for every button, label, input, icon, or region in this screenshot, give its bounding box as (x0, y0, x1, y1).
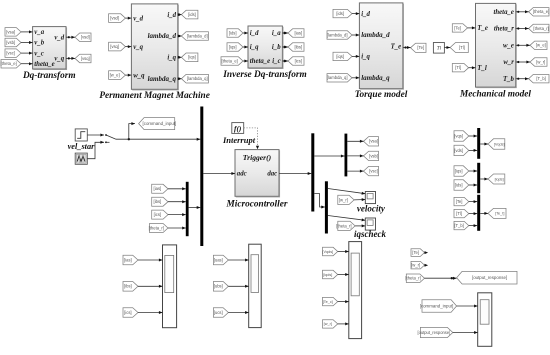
svg-text:[theta_r]: [theta_r] (405, 276, 420, 281)
svg-text:f(): f() (234, 124, 241, 133)
svg-text:T_l: T_l (477, 65, 487, 72)
svg-text:[vsc]: [vsc] (6, 51, 15, 56)
svg-text:[vsq]: [vsq] (81, 56, 90, 61)
svg-text:[ids]: [ids] (336, 11, 344, 16)
svg-text:[w_r]: [w_r] (536, 59, 545, 64)
svg-text:Dq-transform: Dq-transform (22, 71, 76, 81)
svg-text:[T_b]: [T_b] (454, 223, 464, 228)
svg-text:[theta_e]: [theta_e] (222, 58, 238, 63)
svg-text:theta_r: theta_r (494, 26, 514, 33)
svg-text:v_a: v_a (34, 29, 44, 36)
svg-text:w_q: w_q (133, 72, 145, 79)
svg-text:v_d: v_d (54, 34, 64, 41)
svg-text:[Te]: [Te] (454, 25, 461, 30)
svg-text:i_d: i_d (361, 11, 370, 18)
svg-text:[ubs]: [ubs] (214, 284, 223, 289)
svg-text:[vsd]: [vsd] (81, 35, 90, 40)
svg-text:v_d: v_d (133, 15, 143, 22)
svg-text:[iqs]: [iqs] (188, 55, 196, 60)
svg-text:[Te]: [Te] (456, 199, 463, 204)
svg-text:[Tl]: [Tl] (455, 65, 461, 70)
svg-text:i_c: i_c (272, 58, 280, 65)
svg-text:T_b: T_b (503, 76, 515, 83)
svg-text:Interrupt: Interrupt (222, 135, 256, 145)
svg-text:velocity: velocity (357, 203, 386, 213)
svg-text:Torque model: Torque model (355, 90, 408, 100)
svg-text:T_e: T_e (391, 43, 402, 50)
svg-text:[lambda_d]: [lambda_d] (327, 32, 348, 37)
svg-text:[command_input]: [command_input] (420, 303, 454, 308)
svg-text:[ibs]: [ibs] (124, 284, 132, 289)
svg-text:i_q: i_q (250, 44, 259, 51)
svg-text:[ibs]: [ibs] (294, 44, 302, 49)
svg-text:[vqs]: [vqs] (454, 133, 463, 138)
svg-text:[ias]: [ias] (154, 186, 162, 191)
svg-text:theta_e: theta_e (34, 61, 54, 68)
svg-text:adc: adc (237, 171, 247, 178)
svg-text:lambda_q: lambda_q (148, 75, 177, 83)
svg-text:[vsa]: [vsa] (369, 139, 378, 144)
svg-text:[iqs]: [iqs] (455, 168, 463, 173)
svg-text:[command_input]: [command_input] (143, 121, 177, 126)
svg-text:i_d: i_d (250, 30, 259, 37)
svg-text:[ucs]: [ucs] (214, 310, 223, 315)
svg-text:[uas]: [uas] (214, 257, 223, 262)
svg-text:[ics]: [ics] (295, 58, 302, 63)
svg-text:iqscheck: iqscheck (354, 229, 386, 239)
svg-text:[ids]: [ids] (229, 30, 237, 35)
svg-text:Inverse Dq-transform: Inverse Dq-transform (222, 70, 306, 80)
svg-text:i_b: i_b (272, 44, 281, 51)
svg-text:v_q: v_q (54, 56, 64, 63)
svg-text:Permanent Magnet Machine: Permanent Magnet Machine (99, 91, 210, 101)
svg-text:[iqds]: [iqds] (495, 177, 504, 181)
svg-text:[Te]: [Te] (417, 45, 424, 50)
svg-text:[ics]: [ics] (154, 212, 161, 217)
svg-text:[lambda_q]: [lambda_q] (327, 75, 348, 80)
svg-text:[vds]: [vds] (454, 148, 463, 153)
svg-text:Mechanical model: Mechanical model (459, 89, 531, 99)
svg-text:theta_e: theta_e (494, 9, 514, 16)
svg-text:v_c: v_c (34, 50, 43, 57)
svg-text:[Te]: [Te] (412, 250, 419, 255)
svg-text:[output_response]: [output_response] (472, 275, 507, 280)
svg-text:[ibs]: [ibs] (154, 199, 162, 204)
svg-text:[Tl]: [Tl] (459, 45, 465, 50)
svg-text:[ias]: [ias] (124, 257, 132, 262)
svg-text:[vsa]: [vsa] (6, 29, 15, 34)
svg-text:[lambda_d]: [lambda_d] (187, 33, 208, 38)
svg-text:i_d: i_d (167, 12, 176, 19)
svg-text:[vsq]: [vsq] (110, 44, 119, 49)
svg-text:theta_e: theta_e (250, 58, 270, 65)
svg-text:[Tl]: [Tl] (456, 211, 462, 216)
svg-text:lambda_q: lambda_q (361, 74, 390, 82)
svg-text:i_q: i_q (361, 54, 370, 61)
svg-text:w_r: w_r (503, 59, 514, 66)
svg-text:[theta_r]: [theta_r] (533, 26, 548, 31)
svg-text:T_e: T_e (477, 25, 488, 32)
svg-text:[Vqds]: [Vqds] (494, 142, 505, 146)
svg-text:[w_e]: [w_e] (536, 43, 546, 48)
svg-text:v_b: v_b (34, 40, 44, 47)
svg-text:[theta_r]: [theta_r] (149, 225, 164, 230)
svg-text:[ids]: [ids] (188, 12, 196, 17)
svg-text:[ids]: [ids] (455, 182, 463, 187)
svg-text:[iqs]: [iqs] (229, 44, 237, 49)
svg-text:[w_r]: [w_r] (411, 263, 420, 268)
svg-text:[iqs]: [iqs] (336, 54, 344, 59)
svg-text:[output_response]: [output_response] (417, 330, 450, 335)
svg-text:[w_e]: [w_e] (110, 73, 120, 78)
svg-text:[Vqds]: [Vqds] (322, 250, 333, 254)
svg-text:v_q: v_q (133, 44, 143, 51)
svg-text:[lambda_q]: [lambda_q] (187, 76, 208, 81)
svg-text:[theta_r]: [theta_r] (336, 223, 351, 228)
svg-text:[vsb]: [vsb] (369, 153, 378, 158)
svg-text:w_e: w_e (503, 43, 514, 50)
svg-text:i_a: i_a (272, 30, 281, 37)
svg-text:[vsd]: [vsd] (110, 16, 119, 21)
svg-text:[vsb]: [vsb] (6, 40, 15, 45)
svg-text:[w_r]: [w_r] (339, 197, 348, 202)
svg-text:[Te_c]: [Te_c] (323, 300, 333, 304)
svg-text:lambda_d: lambda_d (148, 32, 177, 40)
svg-text:vel_star: vel_star (68, 142, 96, 151)
svg-text:dac: dac (267, 171, 277, 178)
svg-text:[ics]: [ics] (124, 310, 131, 315)
svg-text:[Te_t]: [Te_t] (495, 212, 504, 216)
svg-text:[theta_e]: [theta_e] (1, 61, 17, 66)
svg-text:[iqds]: [iqds] (323, 273, 332, 277)
svg-text:[theta_e]: [theta_e] (533, 9, 549, 14)
svg-text:lambda_d: lambda_d (361, 31, 390, 39)
svg-text:[T_b]: [T_b] (536, 76, 546, 81)
svg-text:i_q: i_q (167, 55, 176, 62)
svg-text:Trigger(): Trigger() (243, 153, 272, 162)
svg-text:[w_r]: [w_r] (324, 322, 332, 326)
svg-text:Microcontroller: Microcontroller (226, 199, 288, 209)
svg-text:[ias]: [ias] (294, 30, 302, 35)
svg-text:[vsc]: [vsc] (369, 169, 378, 174)
svg-text:Tl: Tl (437, 46, 442, 52)
